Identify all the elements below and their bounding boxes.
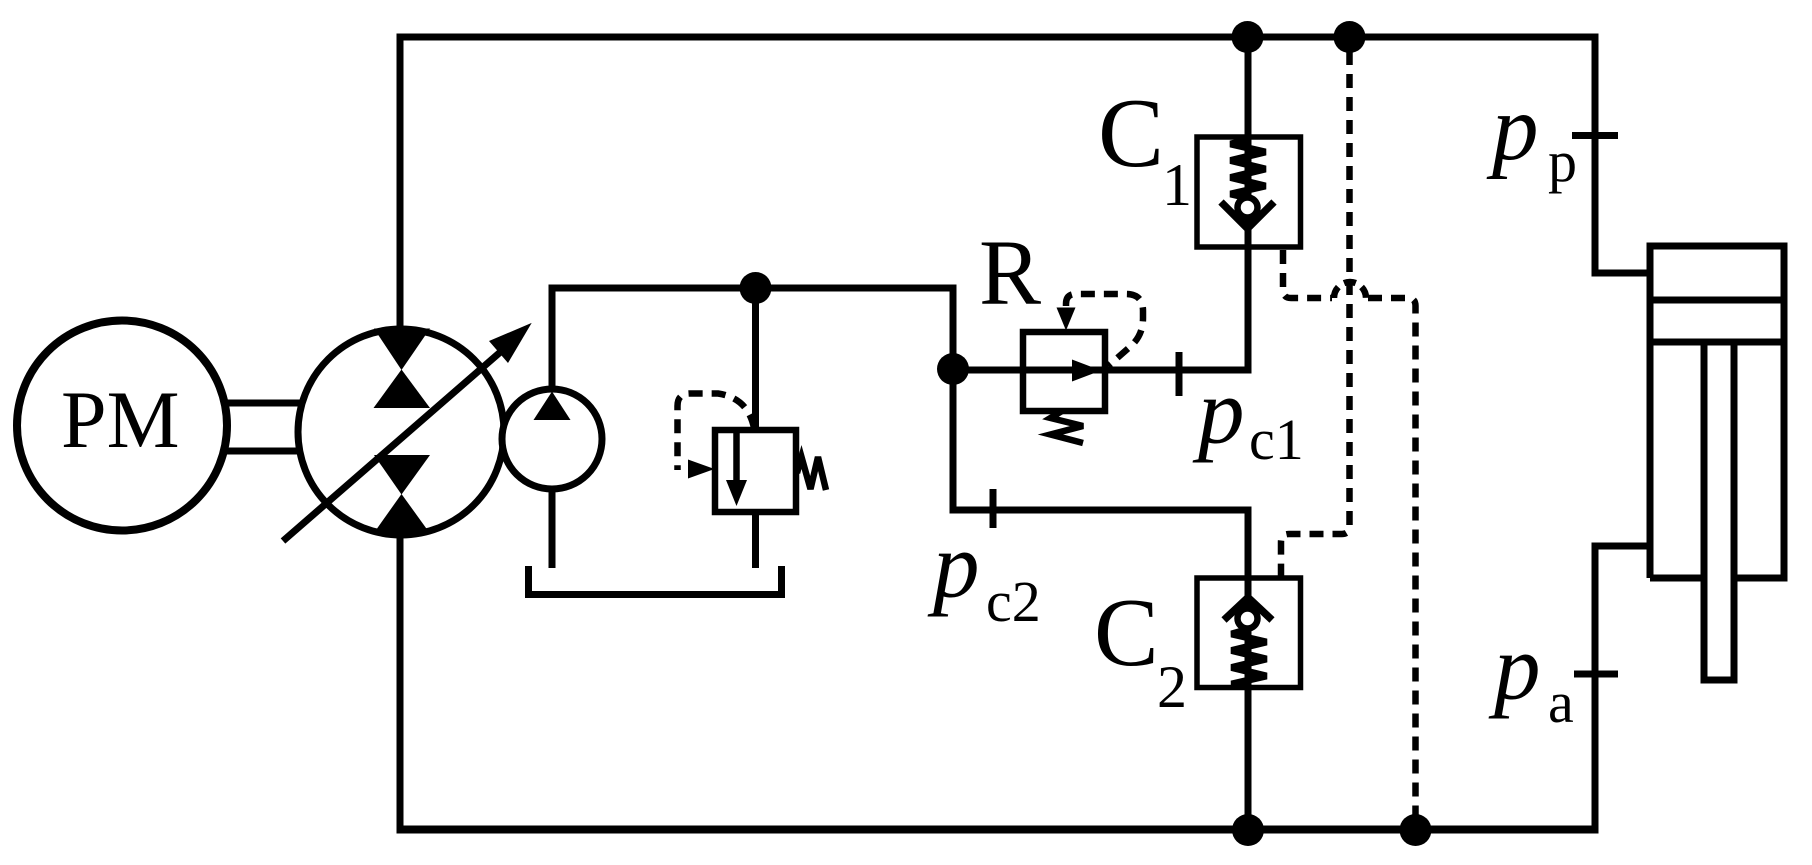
svg-text:c2: c2 xyxy=(986,569,1041,634)
svg-text:1: 1 xyxy=(1162,152,1192,218)
svg-text:p: p xyxy=(927,515,980,618)
svg-text:PM: PM xyxy=(61,374,180,465)
svg-text:p: p xyxy=(1486,77,1539,180)
svg-text:p: p xyxy=(1488,617,1541,720)
svg-text:p: p xyxy=(1192,361,1245,464)
svg-text:p: p xyxy=(1548,129,1577,194)
svg-text:a: a xyxy=(1548,670,1574,735)
svg-text:R: R xyxy=(979,222,1041,325)
svg-text:c1: c1 xyxy=(1249,407,1304,472)
svg-text:C: C xyxy=(1098,79,1164,188)
svg-text:C: C xyxy=(1094,579,1159,686)
svg-text:2: 2 xyxy=(1157,654,1187,720)
